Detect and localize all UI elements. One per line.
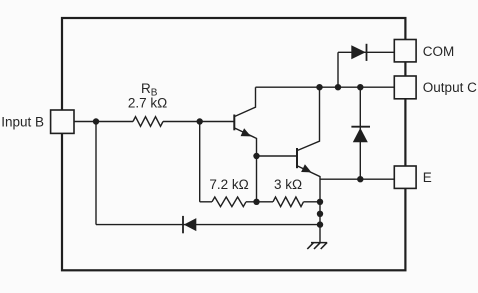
transistor Q2 [297,87,320,242]
wire: COM diode line [338,51,394,53]
svg-text:7.2 kΩ: 7.2 kΩ [209,177,248,192]
wire: collector rail to Output C [256,86,395,88]
node: mid dot on emitter vertical [317,211,323,217]
wire: resistor row line [200,201,320,203]
resistor RB 2.7 kΩ [133,117,163,127]
wire: input line from pad to Q1 base [74,121,234,123]
transistor Q1 [234,87,256,156]
wire: vertical from RB-right node down to 7.2k resistor [199,122,201,202]
wire: vertical from Q1 emitter node down to resistor junction [256,156,258,202]
node: Q1 emitter / Q2 base junction dot [253,153,259,159]
wire: E line from Q2 emitter to E pad [320,178,394,180]
label Input B [1,114,44,129]
svg-text:2.7 kΩ: 2.7 kΩ [128,96,167,111]
resistor R3 3 kΩ [273,197,304,207]
node: clamp diode / E-line junction dot [357,176,363,182]
node: 7.2k/3k junction dot [253,199,259,205]
wire: output clamp diode vertical [359,87,361,179]
resistor R2 7.2 kΩ [212,197,246,207]
pad E [394,166,416,188]
diode D1 input clamp [183,216,196,233]
label RB [141,81,158,99]
node: input clamp line on emitter vertical [317,221,323,227]
wire: input clamp diode line [96,224,320,226]
node: 3k on emitter vertical [317,199,323,205]
label 2.7 kΩ [128,96,167,111]
wire: COM diode branch riser [337,52,339,87]
label Output C [423,80,477,95]
label COM [423,44,455,59]
diode D3 output clamp [351,127,370,143]
node: clamp-diode top on rail [357,84,363,90]
node: COM-diode branch on rail [335,84,341,90]
label E [423,170,432,185]
diode D2 to COM [351,44,366,61]
ground [307,243,327,249]
pad Output C [394,76,416,99]
pad Input B [51,110,74,133]
label 3 kΩ [274,177,302,192]
node: RB-right junction dot [197,118,203,124]
node: Q2 collector on rail [316,84,322,90]
pad COM [394,40,416,62]
label 7.2 kΩ [209,177,248,192]
svg-text:COM: COM [423,44,455,59]
node: input junction dot [93,118,99,124]
wire: Q2 base line [257,155,297,157]
svg-text:Input B: Input B [1,114,44,129]
wire: vertical from input node down to clamp diode line [95,122,97,225]
svg-text:E: E [423,170,432,185]
svg-text:Output C: Output C [423,80,477,95]
device outline box [62,18,405,270]
svg-text:3 kΩ: 3 kΩ [274,177,302,192]
